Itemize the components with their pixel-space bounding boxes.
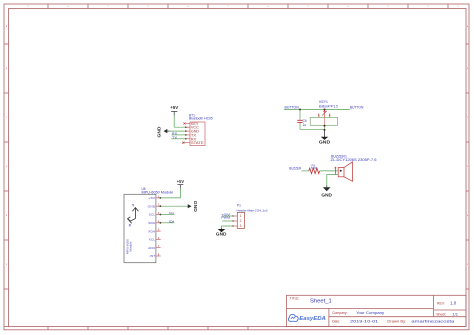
- svg-text:5: 5: [308, 6, 309, 8]
- wire MPU pin 2 to GND: [161, 205, 188, 207]
- wire MPU pin 4 SDA: [161, 222, 175, 224]
- svg-text:+5V: +5V: [148, 196, 155, 200]
- svg-text:3: 3: [240, 224, 242, 228]
- buzzer BUZZER1: [331, 154, 377, 181]
- svg-text:F: F: [6, 264, 8, 266]
- svg-text:8: 8: [188, 6, 189, 8]
- net label BUZZER: [289, 167, 301, 171]
- svg-text:XDA: XDA: [148, 229, 155, 233]
- svg-text:GND: GND: [319, 140, 330, 145]
- wire RX to HC05 TX pin: [171, 134, 185, 136]
- ground flag GND (HC05, pointing left): [157, 127, 170, 138]
- junction node (wire to button): [324, 109, 326, 111]
- power flag +5V (HC05): [170, 105, 178, 116]
- svg-text:D: D: [467, 166, 469, 168]
- svg-text:Header-Male-2.54_1x3: Header-Male-2.54_1x3: [237, 208, 268, 212]
- svg-text:7: 7: [228, 6, 229, 8]
- MPU-6050 axis arrows: [128, 204, 139, 228]
- svg-text:A: A: [467, 25, 469, 28]
- wire GND to HC05 GND pin: [169, 130, 186, 132]
- svg-text:1/1: 1/1: [452, 312, 458, 317]
- svg-text:EasyEDA: EasyEDA: [299, 316, 326, 322]
- svg-text:3: 3: [388, 6, 389, 8]
- svg-text:8: 8: [68, 6, 69, 8]
- svg-text:9: 9: [28, 6, 29, 8]
- title block texts: [290, 296, 459, 323]
- svg-text:SDA: SDA: [148, 221, 155, 225]
- svg-text:1: 1: [318, 113, 320, 117]
- EasyEDA logo: [288, 314, 326, 322]
- junction node (button pin bottom): [324, 125, 326, 127]
- ground flag GND (button): [319, 137, 330, 145]
- wire +5V to HC05 VCC: [174, 115, 186, 127]
- svg-text:GND: GND: [216, 231, 227, 236]
- svg-text:TX: TX: [172, 136, 178, 140]
- wire C6 bottom return: [300, 123, 325, 130]
- svg-text:SCL: SCL: [149, 213, 156, 217]
- junction node (wire to C6): [299, 109, 301, 111]
- pushbutton KEY1: [310, 100, 338, 125]
- svg-text:1: 1: [240, 214, 242, 218]
- ground flag GND (MPU, pointing right): [188, 201, 198, 212]
- wire BUZZER to R1: [302, 170, 309, 172]
- svg-text:X: X: [129, 223, 132, 227]
- svg-text:INT: INT: [150, 254, 156, 258]
- wire header pin 1: [222, 215, 233, 217]
- svg-text:A: A: [6, 25, 8, 28]
- svg-text:SDA: SDA: [169, 220, 174, 224]
- net label BUTTON (right): [350, 106, 364, 110]
- svg-text:2: 2: [329, 113, 331, 117]
- svg-text:GND: GND: [193, 201, 198, 212]
- svg-text:1.0: 1.0: [450, 300, 457, 305]
- wire TX to HC05 RX pin: [171, 138, 185, 140]
- svg-text:TITLE:: TITLE:: [290, 296, 300, 300]
- header P1: [232, 203, 268, 228]
- svg-text:E: E: [467, 215, 469, 217]
- svg-text:Sheet_1: Sheet_1: [310, 298, 332, 304]
- resistor R1: [309, 163, 320, 173]
- net label PWM (header pin 2): [221, 216, 231, 220]
- svg-text:C: C: [467, 117, 469, 119]
- capacitor C6: [297, 110, 307, 128]
- svg-text:2019-10-01: 2019-10-01: [350, 318, 379, 323]
- MPU-6050 pins 1-8: [148, 194, 162, 258]
- wire header pin 3 to GND: [222, 226, 233, 229]
- net label SCL: [169, 211, 175, 215]
- svg-text:ADO: ADO: [148, 246, 156, 250]
- svg-text:amartinezacosta: amartinezacosta: [411, 318, 455, 323]
- svg-text:P1: P1: [237, 203, 241, 207]
- ground flag GND (buzzer): [321, 187, 332, 197]
- MPU-6050 module U6: [124, 187, 174, 263]
- svg-text:PWM: PWM: [221, 216, 231, 220]
- svg-text:+5V: +5V: [177, 179, 184, 184]
- svg-text:SCL: SCL: [169, 211, 175, 215]
- svg-text:1: 1: [458, 6, 459, 8]
- frame reference numbers: [6, 6, 469, 266]
- title block outline: [287, 295, 467, 326]
- svg-text:Sheet:: Sheet:: [436, 313, 446, 317]
- wire stub STATE pin: [182, 142, 186, 144]
- wire MPU pin 3 SCL: [161, 214, 175, 216]
- svg-text:7: 7: [108, 6, 109, 8]
- svg-text:BUTTON: BUTTON: [285, 106, 300, 110]
- net label SDA: [169, 220, 174, 224]
- svg-text:GND: GND: [157, 127, 162, 138]
- wire button to GND: [324, 125, 326, 137]
- svg-text:GND: GND: [321, 192, 332, 197]
- svg-text:B: B: [6, 68, 8, 70]
- svg-text:ZL-DCY1206S 2305P-7.6: ZL-DCY1206S 2305P-7.6: [331, 158, 377, 162]
- svg-text:Drawn By:: Drawn By:: [387, 319, 406, 323]
- svg-text:REV:: REV:: [437, 301, 445, 305]
- net label TX: [172, 136, 178, 140]
- svg-text:Company:: Company:: [332, 311, 348, 315]
- ground flag GND (header): [216, 229, 227, 236]
- svg-text:Button4*4*1.5: Button4*4*1.5: [319, 104, 338, 108]
- svg-text:1u: 1u: [303, 123, 307, 127]
- svg-text:BUZZER: BUZZER: [289, 167, 301, 171]
- MPU-6050 inner rotated label: [125, 239, 132, 254]
- net label +5V (header pin 1): [221, 213, 230, 217]
- wire buzzer return to GND: [327, 175, 338, 188]
- wire header pin 2: [222, 220, 233, 222]
- svg-text:2: 2: [240, 219, 242, 223]
- svg-text:Module: Module: [129, 241, 133, 251]
- wire BUTTON net: [284, 109, 350, 111]
- net label RX: [172, 132, 178, 136]
- svg-text:Bluetooth HC05: Bluetooth HC05: [189, 117, 213, 121]
- svg-text:E: E: [6, 215, 8, 217]
- svg-text:BUTTON: BUTTON: [350, 106, 364, 110]
- bluetooth module BT1: [183, 113, 213, 145]
- wire +5V to MPU pin 1: [161, 188, 181, 198]
- svg-text:B: B: [467, 68, 469, 70]
- svg-text:Your Company: Your Company: [356, 310, 384, 315]
- svg-text:4: 4: [348, 6, 349, 8]
- svg-text:6: 6: [268, 6, 269, 8]
- svg-text:Y: Y: [132, 204, 135, 208]
- svg-text:D: D: [6, 166, 8, 168]
- net label BUTTON (left): [285, 106, 300, 110]
- svg-text:Date:: Date:: [332, 319, 340, 323]
- svg-text:9: 9: [148, 6, 149, 8]
- junction node (C6 return joins): [324, 129, 326, 131]
- svg-text:2: 2: [428, 6, 429, 8]
- svg-text:GND: GND: [148, 204, 156, 208]
- svg-text:STATE: STATE: [191, 141, 205, 145]
- wire R1 to buzzer: [320, 170, 339, 172]
- svg-text:+5V: +5V: [170, 105, 178, 110]
- power flag +5V (MPU): [177, 179, 184, 188]
- svg-text:C: C: [6, 117, 8, 119]
- svg-text:XCL: XCL: [149, 238, 156, 242]
